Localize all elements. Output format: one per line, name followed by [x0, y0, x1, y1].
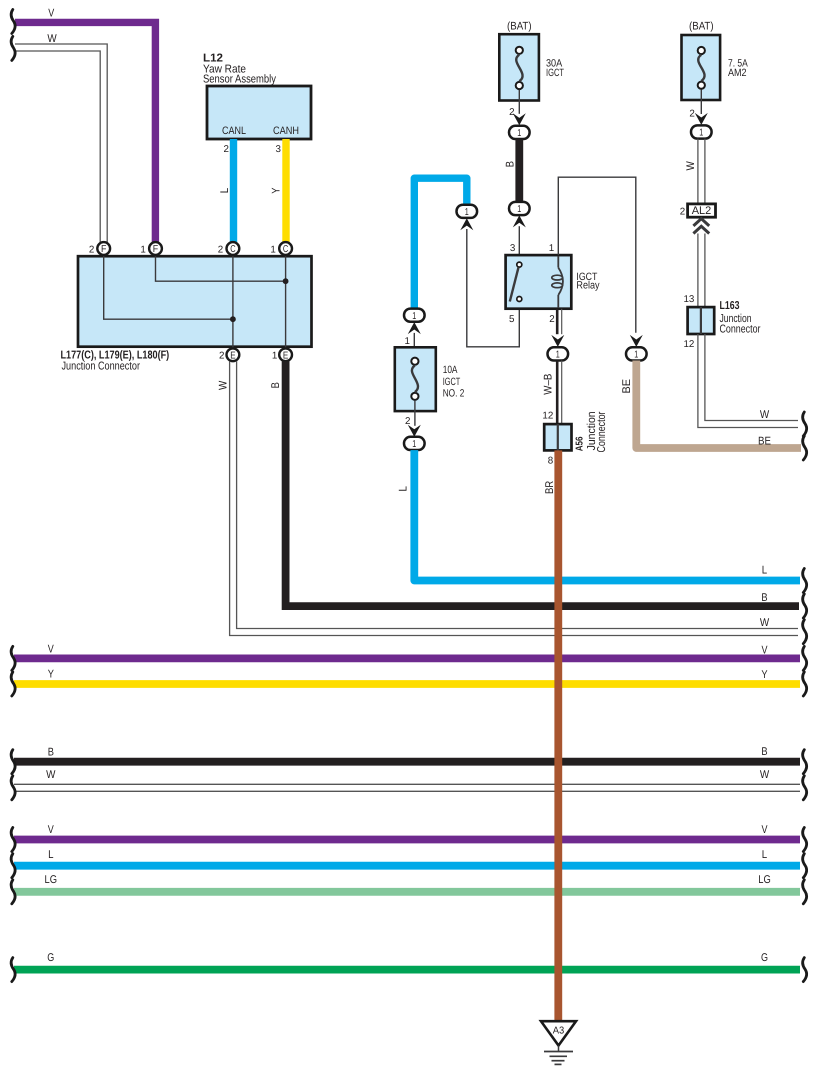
svg-text:W: W [760, 769, 770, 781]
svg-text:L: L [398, 486, 410, 491]
svg-text:C: C [283, 244, 288, 255]
svg-text:E: E [230, 350, 236, 361]
svg-text:V: V [762, 645, 768, 657]
svg-text:3: 3 [510, 243, 516, 254]
svg-text:CANL: CANL [222, 125, 246, 137]
svg-text:V: V [48, 824, 54, 836]
svg-text:V: V [762, 824, 768, 836]
svg-text:2: 2 [218, 244, 223, 255]
svg-text:10A: 10A [443, 364, 459, 376]
svg-text:Connector: Connector [596, 411, 608, 452]
svg-text:L: L [219, 188, 231, 193]
svg-text:G: G [47, 952, 54, 964]
svg-text:AM2: AM2 [728, 67, 747, 79]
svg-text:2: 2 [689, 109, 694, 120]
svg-text:1: 1 [405, 336, 410, 347]
svg-text:12: 12 [683, 339, 694, 350]
svg-text:IGCT: IGCT [443, 376, 461, 388]
svg-text:1: 1 [140, 244, 145, 255]
svg-text:L: L [762, 849, 767, 861]
svg-text:Connector: Connector [720, 324, 761, 336]
svg-text:W: W [218, 380, 230, 390]
svg-text:2: 2 [549, 314, 554, 325]
svg-text:V: V [48, 8, 54, 20]
svg-text:BE: BE [621, 379, 633, 394]
svg-text:W: W [760, 617, 770, 629]
svg-text:W–B: W–B [543, 374, 555, 395]
svg-text:B: B [48, 747, 54, 759]
svg-text:W: W [47, 33, 57, 45]
svg-text:B: B [761, 746, 767, 758]
svg-text:1: 1 [549, 243, 554, 254]
svg-text:Relay: Relay [576, 280, 600, 292]
svg-text:W: W [46, 769, 56, 781]
svg-text:E: E [283, 350, 289, 361]
svg-text:L: L [762, 564, 767, 576]
svg-text:F: F [153, 244, 158, 255]
svg-text:B: B [761, 592, 767, 604]
svg-text:3: 3 [276, 144, 282, 155]
svg-text:12: 12 [542, 410, 553, 421]
svg-text:Y: Y [48, 668, 55, 680]
svg-text:8: 8 [548, 456, 554, 467]
svg-text:2: 2 [680, 207, 685, 218]
svg-text:C: C [230, 244, 235, 255]
svg-text:LG: LG [45, 874, 58, 886]
svg-text:5: 5 [509, 314, 515, 325]
svg-text:G: G [761, 952, 768, 964]
svg-text:B: B [505, 161, 517, 167]
svg-text:1: 1 [272, 351, 277, 362]
svg-text:Y: Y [761, 669, 768, 681]
svg-text:(BAT): (BAT) [689, 21, 714, 33]
svg-text:L163: L163 [720, 300, 740, 312]
svg-text:BR: BR [544, 481, 556, 494]
svg-text:F: F [101, 244, 106, 255]
svg-text:LG: LG [758, 874, 771, 886]
svg-text:Junction Connector: Junction Connector [62, 361, 141, 373]
svg-text:W: W [760, 409, 770, 421]
svg-text:BE: BE [758, 435, 771, 447]
svg-text:W: W [685, 161, 697, 171]
svg-text:13: 13 [683, 294, 694, 305]
svg-text:V: V [48, 643, 54, 655]
svg-text:Sensor Assembly: Sensor Assembly [203, 73, 276, 85]
svg-text:(BAT): (BAT) [507, 21, 532, 33]
svg-text:2: 2 [509, 107, 514, 118]
svg-text:2: 2 [224, 144, 229, 155]
svg-text:NO. 2: NO. 2 [443, 388, 465, 400]
svg-text:2: 2 [405, 416, 410, 427]
svg-text:B: B [270, 382, 282, 388]
svg-text:CANH: CANH [273, 125, 299, 137]
svg-text:2: 2 [219, 351, 224, 362]
svg-text:IGCT: IGCT [546, 67, 564, 79]
svg-text:L: L [48, 849, 53, 861]
svg-text:A3: A3 [553, 1026, 565, 1037]
svg-text:A56: A56 [575, 436, 586, 451]
svg-text:AL2: AL2 [692, 205, 712, 217]
svg-text:1: 1 [270, 244, 275, 255]
svg-text:Y: Y [271, 187, 283, 194]
svg-text:2: 2 [89, 244, 94, 255]
